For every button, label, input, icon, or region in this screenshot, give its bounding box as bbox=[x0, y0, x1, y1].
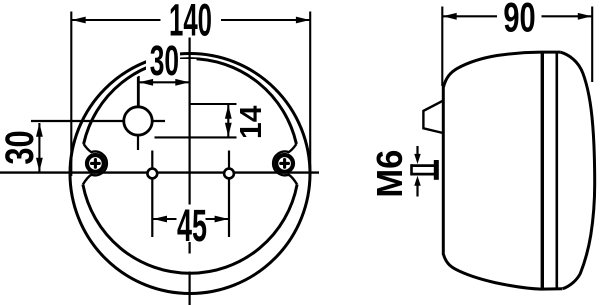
dim 140 line bbox=[71, 19, 310, 21]
dim 30 left vertical: dim line bbox=[38, 123, 40, 172]
dim 30 left arrow down bbox=[36, 158, 43, 172]
M6 stud shaft top line bbox=[411, 164, 434, 167]
dim 90 line bbox=[442, 15, 592, 17]
hole H1 (upper mounting hole) bbox=[124, 107, 152, 135]
screw S1 phillips cross bbox=[90, 158, 101, 169]
lens seam line A bbox=[541, 52, 544, 289]
dim 30 top arrow left bbox=[139, 79, 153, 86]
dim 45 arrow left bbox=[153, 216, 167, 223]
svg-text:30: 30 bbox=[150, 38, 179, 85]
vertical center line redraw through knockout bbox=[189, 59, 191, 76]
svg-text:45: 45 bbox=[177, 199, 207, 250]
dim 14 bottom tangent line bbox=[155, 136, 237, 138]
svg-text:14: 14 bbox=[234, 106, 269, 139]
dim 30 top arrow right bbox=[175, 79, 189, 86]
hole H1 vertical center line bbox=[137, 77, 139, 150]
dim 140 arrow left bbox=[72, 17, 86, 24]
dim text 30 top (with white knockout over circles) bbox=[146, 45, 180, 76]
inner circle arc bottom (between screw notches) bbox=[83, 185, 297, 274]
svg-text:30: 30 bbox=[0, 130, 42, 164]
dim 30 top extension line bbox=[138, 76, 140, 112]
dim 140 extension line right bbox=[309, 12, 311, 177]
svg-text:90: 90 bbox=[503, 0, 535, 41]
inner circle arc top (between screw notches) bbox=[84, 59, 297, 144]
hole H1 horizontal center line bbox=[31, 120, 165, 122]
housing top edge bbox=[444, 52, 561, 87]
screw S2 head ring bbox=[276, 155, 293, 172]
dim 45 arrow right bbox=[215, 216, 229, 223]
M6 arrow up (callout) bbox=[416, 183, 418, 197]
lens edge line B bbox=[555, 52, 558, 288]
dim 90 extension line right bbox=[591, 7, 593, 83]
rim notch around right screw bbox=[273, 144, 297, 185]
dim 30 top line bbox=[139, 81, 189, 83]
dim 14 arrow up bbox=[225, 105, 232, 119]
housing bottom edge bbox=[444, 255, 563, 290]
dim 14 top tangent line bbox=[190, 103, 237, 105]
vertical center line bbox=[189, 38, 191, 305]
dim 90 arrow left bbox=[443, 13, 457, 20]
M6 stud end cap bbox=[410, 164, 413, 175]
M6 stud shaft bottom line bbox=[411, 173, 434, 176]
outer circle of lamp bbox=[70, 54, 310, 294]
small hole H2 vertical center line bbox=[151, 151, 153, 238]
housing back wall bbox=[442, 84, 445, 255]
M6 arrow down (callout) bbox=[416, 146, 418, 158]
svg-text:M6: M6 bbox=[371, 150, 411, 198]
dim 140 arrow right bbox=[296, 17, 310, 24]
small hole H3 bbox=[224, 169, 234, 179]
rim notch around left screw bbox=[83, 144, 107, 185]
dim 14 arrow down bbox=[225, 123, 232, 137]
lens dome profile bbox=[560, 52, 594, 289]
mounting tab top left bbox=[423, 101, 443, 133]
screw S2 phillips cross bbox=[279, 158, 290, 169]
dim 30 left arrow up bbox=[36, 123, 43, 137]
dim 90 extension line left bbox=[441, 7, 443, 87]
dim 140 extension line left bbox=[70, 12, 72, 177]
screw S1 head ring bbox=[87, 155, 104, 172]
small hole H3 vertical center line bbox=[228, 151, 230, 238]
small hole H2 bbox=[147, 169, 157, 179]
dim 45 line bbox=[153, 218, 229, 220]
dim 90 arrow right bbox=[578, 13, 592, 20]
dim 14 line bbox=[227, 105, 229, 137]
horizontal center line bbox=[0, 171, 319, 173]
M6 stud washer bbox=[434, 160, 439, 180]
